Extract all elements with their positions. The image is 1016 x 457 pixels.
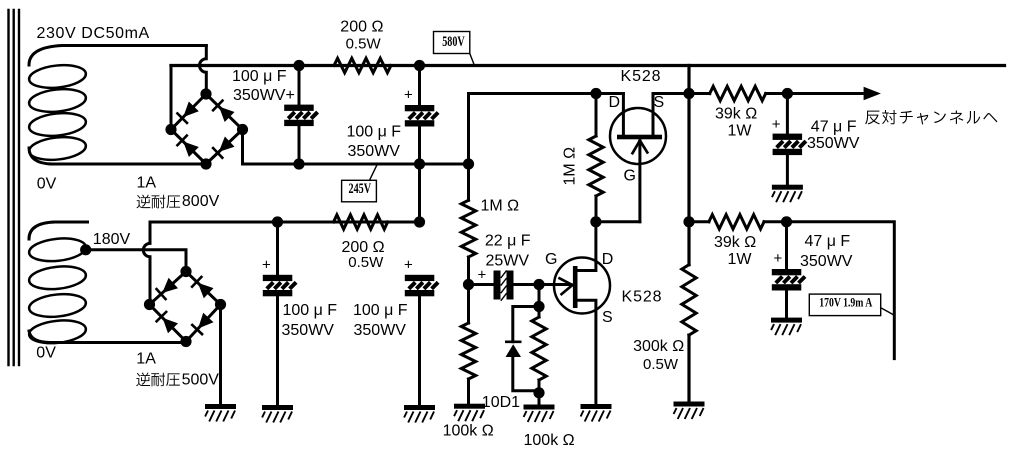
wire 180V to bridge2 [86, 250, 186, 272]
label 0.5W 300k [643, 356, 679, 373]
wire winding-top to bridge1 AC (hop) [200, 46, 207, 95]
wire 0V to bridge1 bottom [50, 163, 206, 166]
svg-text:39k Ω: 39k Ω [714, 234, 756, 251]
svg-text:100 μ F: 100 μ F [283, 302, 338, 319]
node 180V tap [80, 244, 91, 255]
node zener top [533, 301, 544, 312]
svg-text:1A: 1A [137, 175, 157, 192]
label C4 plus [404, 256, 413, 273]
label 1W row2 [728, 251, 753, 268]
wire bridge1 DC+ riser [170, 66, 173, 130]
label C2 100uF [347, 124, 402, 141]
label C3 100uF [283, 302, 338, 319]
svg-text:D: D [609, 94, 621, 111]
transformer T1 winding 230V [28, 46, 206, 165]
label 200ohm bottom [342, 239, 385, 256]
label 0V (top transformer) [37, 176, 57, 193]
svg-text:S: S [602, 309, 613, 326]
node C4 top / 245V link [414, 216, 425, 227]
label Q2 S [602, 309, 613, 326]
svg-text:47 μ F: 47 μ F [805, 233, 851, 250]
label C1 350WV+ [233, 87, 295, 104]
svg-text:0V: 0V [36, 344, 56, 361]
node Q2 D top [590, 216, 601, 227]
svg-text:350WV: 350WV [807, 135, 860, 152]
label 0.5W top [346, 35, 382, 52]
svg-text:+: + [262, 256, 271, 273]
svg-text:100k Ω: 100k Ω [443, 422, 494, 439]
label 1W row1 [728, 122, 753, 139]
wire row2 to output [787, 222, 895, 359]
resistor 200ohm 0.5W top [334, 58, 391, 72]
label C6 350WV [800, 253, 853, 270]
svg-text:230V DC50mA: 230V DC50mA [37, 25, 150, 42]
capacitor C4 100uF 350WV [405, 275, 438, 405]
label 逆耐圧800V [137, 193, 220, 210]
bridge rectifier BR1 1A 800V [165, 88, 248, 169]
label 反対チャンネルへ [865, 110, 997, 125]
svg-text:100k Ω: 100k Ω [524, 432, 575, 449]
capacitor 22uF 25WV [469, 270, 540, 300]
node C1 bottom [293, 158, 304, 169]
svg-text:10D1: 10D1 [482, 394, 520, 411]
node C2 bottom [414, 158, 425, 169]
label C5 plus [772, 116, 781, 133]
wire bridge1 DC- to 245V rail [243, 130, 469, 165]
wire Q1 S to node [653, 92, 689, 95]
svg-text:0.5W: 0.5W [643, 356, 679, 373]
svg-text:580V: 580V [442, 33, 465, 49]
capacitor C1 100uF 350WV [284, 66, 317, 165]
node 245V rail right end [463, 158, 474, 169]
label Q1 S [654, 94, 665, 111]
node row1 x787 [782, 88, 793, 99]
label Q1 G [624, 167, 636, 184]
svg-text:800V: 800V [182, 193, 220, 210]
svg-text:D: D [602, 251, 614, 268]
wire arrow to other channel [787, 87, 881, 100]
svg-text:100 μ F: 100 μ F [353, 302, 408, 319]
svg-text:0V: 0V [37, 176, 57, 193]
rail 580V top [171, 64, 1005, 67]
label 1A (BR1) [137, 175, 157, 192]
transformer T2 winding 180V [28, 222, 87, 346]
ground 100k right [524, 405, 555, 423]
label Q2 K528 [622, 289, 663, 306]
svg-text:39k Ω: 39k Ω [715, 105, 757, 122]
label 1A (BR2) [136, 350, 156, 367]
svg-text:350WV: 350WV [282, 322, 335, 339]
node zener bottom [533, 387, 544, 398]
svg-text:0.5W: 0.5W [348, 254, 384, 271]
label 1M Q1 rotated [562, 147, 579, 186]
wire to Q2 gate [539, 278, 573, 294]
label 200ohm top [340, 19, 383, 36]
ground Q2 S [581, 404, 612, 422]
svg-text:350WV: 350WV [354, 322, 407, 339]
callout 170V 1.9mA [809, 294, 893, 316]
label 0.5W bottom [348, 254, 384, 271]
svg-text:1W: 1W [728, 122, 753, 139]
ground C3 [262, 405, 293, 423]
svg-text:1M Ω: 1M Ω [562, 147, 579, 186]
node row1 x689 [683, 88, 694, 99]
ground BR2 [205, 404, 236, 422]
node Q1 D / R 1M top [590, 88, 601, 99]
label C1 100uF [232, 68, 287, 85]
capacitor C5 47uF 350WV [773, 94, 806, 185]
wire 580V to rows [687, 66, 690, 222]
svg-text:1A: 1A [136, 350, 156, 367]
wire 0V to bridge2 bottom [50, 341, 186, 344]
resistor 1M chain [461, 164, 475, 285]
label C6 plus [774, 250, 783, 267]
label 100k left [443, 422, 494, 439]
svg-text:1W: 1W [728, 251, 753, 268]
svg-text:200 Ω: 200 Ω [340, 19, 383, 36]
transformer core laminations [9, 10, 20, 365]
node row2 x689 [683, 216, 694, 227]
label C2 plus [404, 87, 413, 104]
label 0V (bottom) [36, 344, 56, 361]
node cap C2 top [414, 60, 425, 71]
zener diode 10D1 [505, 307, 539, 391]
label 100k right [524, 432, 575, 449]
label C3 plus [262, 256, 271, 273]
svg-text:25WV: 25WV [486, 253, 530, 270]
resistor 1M Q1 [589, 94, 603, 222]
label C4 350WV [354, 322, 407, 339]
node Q2 gate [533, 279, 544, 290]
label C4 100uF [353, 302, 408, 319]
svg-text:100 μ F: 100 μ F [347, 124, 402, 141]
svg-text:47 μ F: 47 μ F [811, 119, 857, 136]
label C5 350WV [807, 135, 860, 152]
svg-text:+: + [774, 250, 783, 267]
label Q1 K528 [621, 68, 662, 85]
capacitor C3 100uF 350WV [263, 222, 296, 405]
svg-text:1M Ω: 1M Ω [481, 198, 520, 215]
bridge rectifier BR2 1A 500V [144, 266, 226, 347]
resistor 39k 1W row2 [689, 215, 787, 229]
callout 580V [434, 32, 475, 65]
resistor 39k 1W row1 [689, 86, 787, 100]
node 22uF left [463, 279, 474, 290]
node cap C1 top [293, 60, 304, 71]
wire bridge2 DC+ riser (hop) [143, 222, 150, 305]
node C3 top [272, 216, 283, 227]
svg-text:350WV: 350WV [348, 143, 401, 160]
svg-text:180V: 180V [93, 231, 131, 248]
ground 300k [674, 402, 705, 420]
label 10D1 [482, 394, 520, 411]
svg-text:245V: 245V [349, 180, 372, 196]
svg-text:350WV: 350WV [800, 253, 853, 270]
label 22uF [485, 233, 531, 250]
label 180V [93, 231, 131, 248]
svg-text:+: + [404, 256, 413, 273]
label C5 47uF [811, 119, 857, 136]
ground C6 [771, 318, 802, 336]
svg-text:S: S [654, 94, 665, 111]
wire Q1 drain row [469, 94, 624, 165]
label Q2 D [602, 251, 614, 268]
svg-text:G: G [545, 251, 557, 268]
resistor 300k 0.5W [682, 222, 696, 402]
resistor 100k right [532, 285, 546, 404]
transistor Q2 K528 [554, 222, 610, 404]
label 39k row1 [715, 105, 757, 122]
callout 245V [342, 165, 377, 202]
label 230V DC50mA [37, 25, 150, 42]
label 39k row2 [714, 234, 756, 251]
svg-text:100 μ F: 100 μ F [232, 68, 287, 85]
resistor 100k left [461, 285, 475, 404]
node row2 x787 [781, 216, 792, 227]
transistor Q1 K528 [610, 94, 666, 222]
rail second row [150, 221, 420, 224]
ground C5 [772, 185, 803, 203]
svg-text:170V 1.9m A: 170V 1.9m A [819, 296, 872, 309]
label Q1 D [609, 94, 621, 111]
wire Q2 D to Q1 G [596, 220, 640, 223]
label 逆耐圧500V [136, 372, 219, 389]
resistor 200ohm 0.5W bottom [334, 215, 388, 229]
svg-text:350WV+: 350WV+ [233, 87, 295, 104]
svg-text:+: + [772, 116, 781, 133]
svg-text:K528: K528 [622, 289, 663, 306]
svg-text:22 μ F: 22 μ F [485, 233, 531, 250]
label 1M chain [481, 198, 520, 215]
label Q2 G [545, 251, 557, 268]
label 25WV [486, 253, 530, 270]
label C6 47uF [805, 233, 851, 250]
label 22uF plus [478, 266, 487, 283]
label C2 350WV [348, 143, 401, 160]
svg-text:0.5W: 0.5W [346, 35, 382, 52]
capacitor C6 47uF 350WV [772, 222, 805, 318]
capacitor C2 100uF 350WV [405, 66, 438, 223]
svg-text:K528: K528 [621, 68, 662, 85]
ground 100k left [454, 404, 485, 422]
label 300k [633, 338, 684, 355]
svg-text:300k Ω: 300k Ω [633, 338, 684, 355]
wire bridge2 DC- down [219, 305, 222, 405]
ground C4 [404, 405, 435, 423]
svg-text:G: G [624, 167, 636, 184]
svg-text:500V: 500V [182, 372, 220, 389]
label C3 350WV [282, 322, 335, 339]
svg-text:+: + [404, 87, 413, 104]
